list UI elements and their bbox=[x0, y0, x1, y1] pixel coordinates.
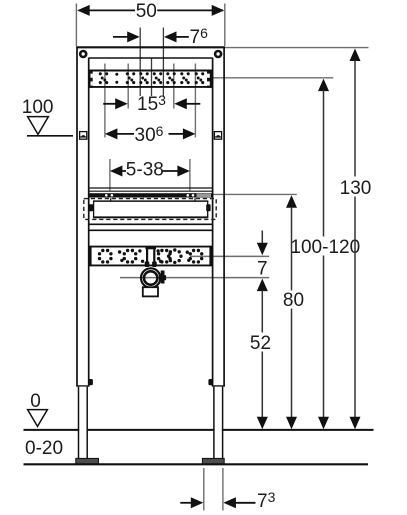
left leg bbox=[79, 387, 86, 459]
dimension 30-6 bbox=[105, 123, 195, 146]
dimension 15-3 bbox=[103, 92, 200, 115]
svg-text:130: 130 bbox=[340, 178, 372, 199]
dimension 5-38 bbox=[110, 160, 190, 181]
leader fitting axis (7 lower ref) bbox=[120, 277, 269, 279]
frame top bar bbox=[76, 46, 225, 48]
top perforated rail bbox=[89, 70, 213, 88]
lock tab left bbox=[89, 379, 93, 385]
rail clamp symbol right bbox=[214, 132, 221, 140]
left foot plate bbox=[76, 458, 99, 463]
extension line 100-120 (from top rail right) bbox=[213, 77, 334, 79]
svg-text:100-120: 100-120 bbox=[290, 237, 360, 258]
dimension 7-6 bbox=[113, 25, 208, 48]
frame right rail bbox=[212, 58, 214, 387]
svg-text:7: 7 bbox=[257, 258, 268, 279]
svg-text:100: 100 bbox=[22, 97, 54, 118]
dimension 80 bbox=[283, 195, 304, 429]
step lines at rail/leg transition bbox=[76, 385, 89, 387]
bolt left bbox=[79, 50, 88, 59]
svg-text:0-20: 0-20 bbox=[25, 438, 63, 459]
dimension 130 bbox=[340, 49, 372, 430]
extension lines 30-6 bbox=[104, 64, 106, 138]
lower rail hole rings bbox=[98, 248, 204, 264]
level mark 0 bbox=[28, 391, 48, 426]
zero level line bbox=[24, 429, 374, 431]
stirrup clamp on lower rail bbox=[145, 246, 157, 267]
lower perforated rail bbox=[89, 246, 213, 266]
extension line 130 (top, from frame top to right) bbox=[225, 47, 369, 49]
dimension 52 bbox=[250, 290, 271, 429]
extension lines 50 bbox=[75, 4, 77, 47]
extension lines 7-3 (bottom) bbox=[203, 468, 205, 511]
water fitting bbox=[141, 268, 166, 296]
svg-text:50: 50 bbox=[136, 1, 157, 22]
extension lines 5-38 bbox=[109, 159, 111, 191]
extension lines 15-3 bbox=[127, 64, 129, 109]
lock tab right bbox=[208, 379, 212, 385]
dimension 100-120 bbox=[290, 79, 360, 430]
top rail hole pattern bbox=[99, 72, 205, 84]
right leg bbox=[215, 387, 222, 459]
centerline bbox=[151, 58, 153, 96]
bolt nub right bbox=[206, 204, 210, 211]
dimension 50 bbox=[77, 1, 224, 22]
extension lines 7-6 bbox=[139, 28, 141, 97]
right foot plate bbox=[202, 458, 224, 463]
dashed box (alternate bar position) bbox=[84, 199, 216, 220]
frame left rail bbox=[76, 47, 78, 387]
svg-text:80: 80 bbox=[283, 290, 304, 311]
finished floor line bbox=[24, 463, 369, 465]
rail clamp symbol left bbox=[80, 132, 87, 140]
dimension 7-3 (bottom) bbox=[180, 489, 275, 512]
lower crossbar lines bbox=[89, 223, 212, 225]
bolt right bbox=[214, 50, 223, 59]
svg-text:52: 52 bbox=[250, 333, 271, 354]
dimension 7 (rail to fitting) bbox=[257, 231, 268, 292]
washbasin fixing bar bbox=[89, 188, 212, 198]
bar inside dashed box bbox=[93, 198, 208, 217]
svg-text:5-38: 5-38 bbox=[126, 160, 164, 181]
level mark 100 bbox=[22, 97, 73, 136]
leader rail2 axis (7 upper ref) bbox=[190, 255, 269, 257]
leader 80 (from fixing bar right) bbox=[213, 193, 297, 195]
bolt nub left bbox=[89, 204, 93, 211]
